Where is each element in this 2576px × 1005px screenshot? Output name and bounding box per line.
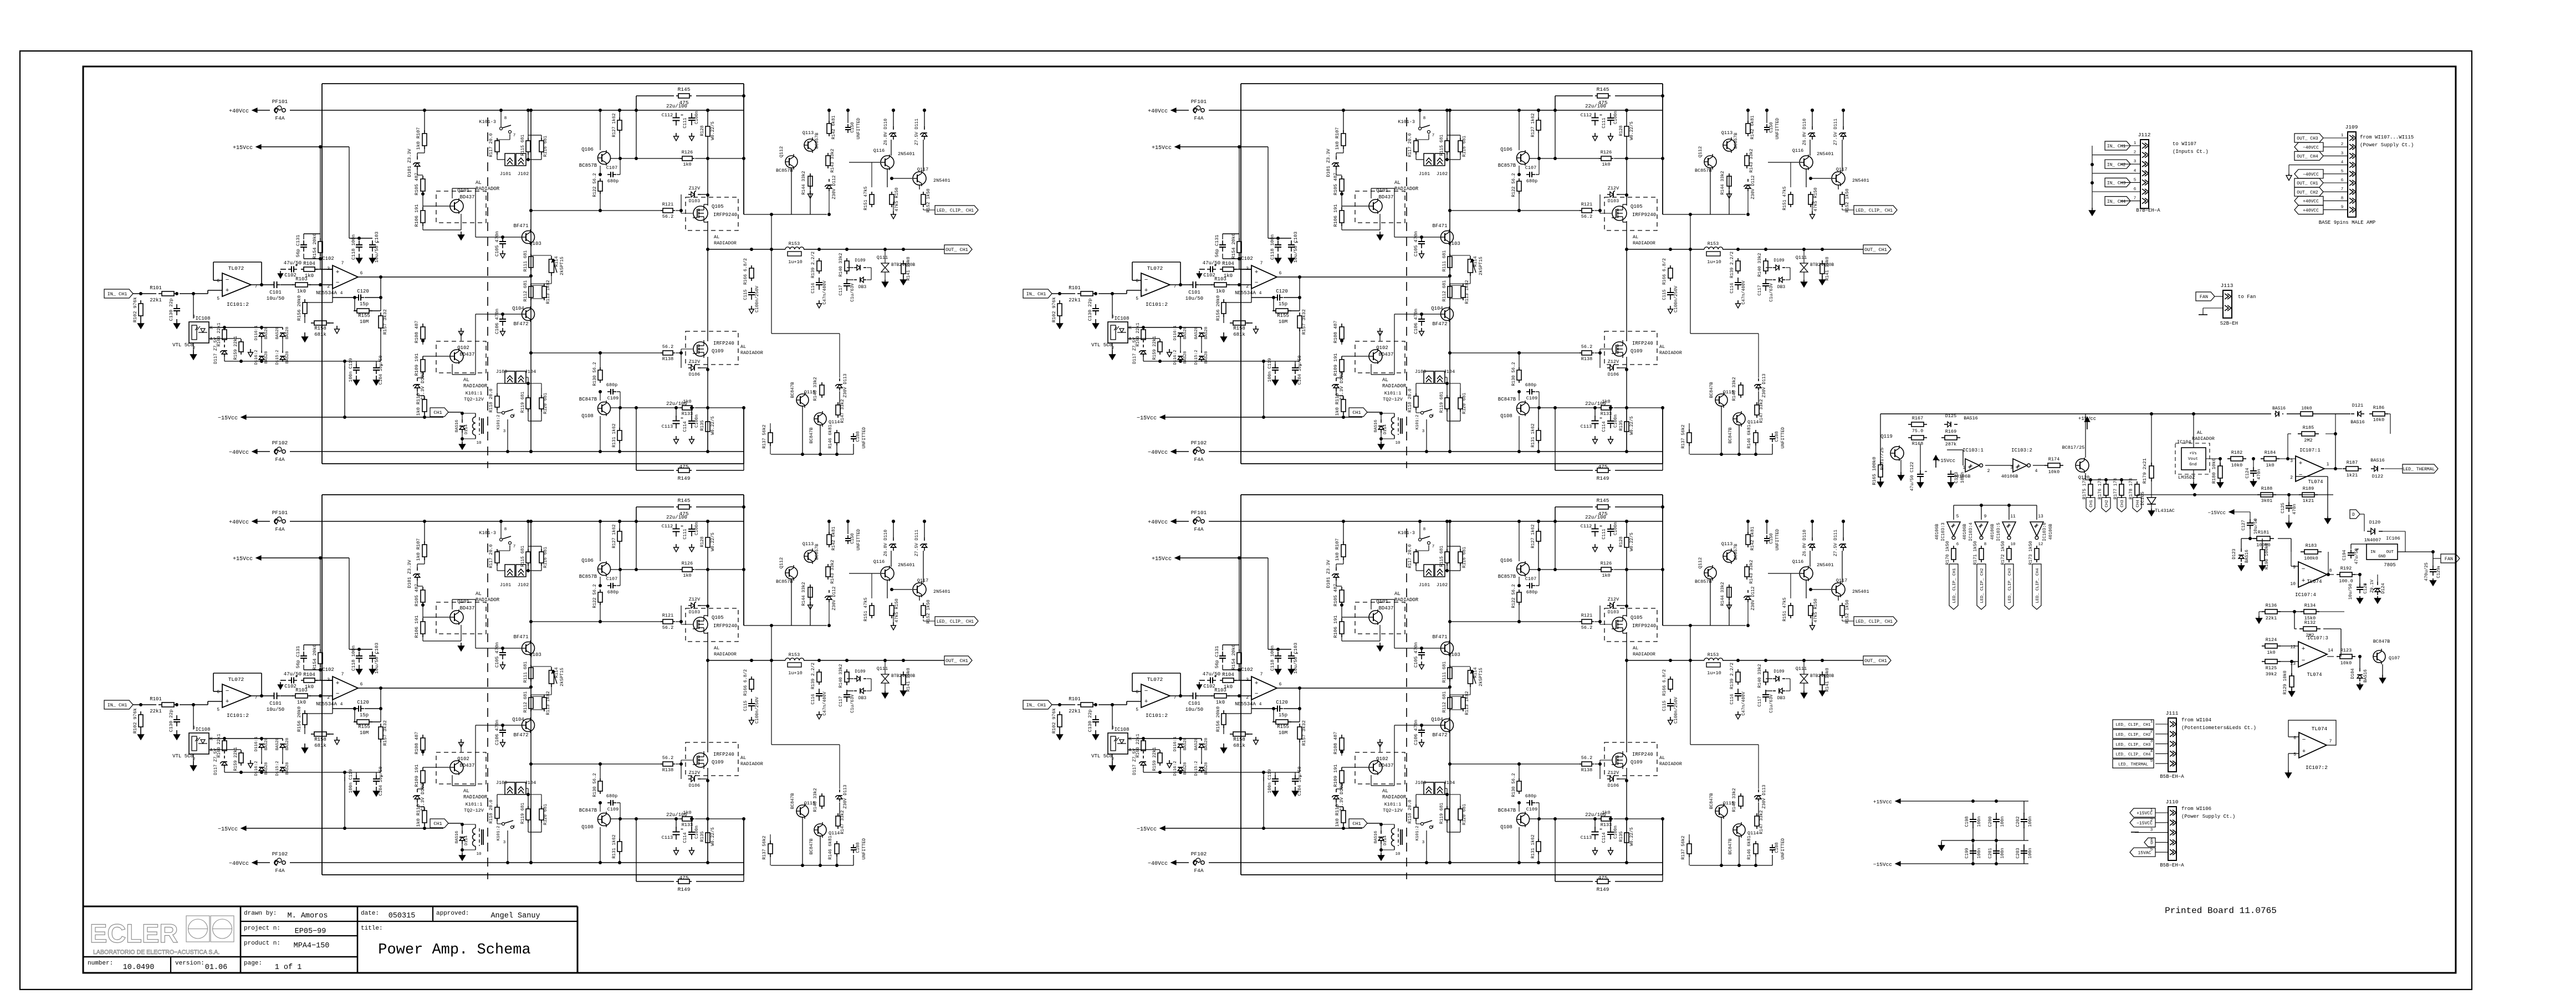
svg-text:2: 2 [2134,151,2137,155]
svg-text:page:: page: [244,960,262,967]
svg-text:1: 1 [1962,465,1965,470]
svg-text:13: 13 [2038,514,2043,519]
svg-text:14: 14 [2328,648,2333,653]
svg-text:10: 10 [2010,542,2016,547]
resistor R164 10k0 [2299,413,2301,414]
amplifier channel CH1 block [104,84,978,481]
svg-text:10k0: 10k0 [2340,660,2352,666]
svg-text:Q107: Q107 [2389,655,2400,661]
svg-text:J112: J112 [2138,132,2151,138]
svg-text:40106B: 40106B [1935,524,1940,540]
svg-text:IC107:1: IC107:1 [2299,448,2321,453]
wire J112 ground bus [2092,146,2093,208]
svg-text:IC103:6: IC103:6 [2042,522,2047,541]
capacitor C127 10u/50 [2250,519,2251,523]
svg-text:D122: D122 [2372,474,2383,479]
resistor R176 178 [2105,481,2107,484]
svg-text:R172 1k50: R172 1k50 [2001,541,2006,565]
ground [2203,307,2223,309]
net flag FAN [2196,292,2215,301]
svg-text:−: − [2299,472,2303,479]
svg-text:−15Vcc: −15Vcc [1873,862,1893,868]
svg-text:MPA4−150: MPA4−150 [294,942,330,950]
svg-text:(Inputs Ct.): (Inputs Ct.) [2173,149,2209,155]
label -15Vcc [2229,510,2234,514]
svg-text:100.0: 100.0 [2339,578,2353,584]
schmitt inverter IC103:3 40106B [1947,522,1960,536]
net flag LED_CLIP_CH2 [2113,730,2154,739]
capacitor C203 100n [2023,844,2025,851]
svg-text:D120: D120 [2369,520,2380,525]
svg-text:5: 5 [2150,759,2153,763]
svg-text:4: 4 [2035,469,2038,474]
label +15Vcc thermal [2087,422,2088,429]
svg-text:B5B−EH−A: B5B−EH−A [2160,863,2184,868]
svg-text:AL: AL [2197,430,2202,435]
svg-text:GND: GND [2378,555,2386,559]
svg-text:4: 4 [2134,169,2137,173]
svg-text:D: D [2352,512,2355,517]
svg-text:R129 10k0: R129 10k0 [2283,670,2288,694]
svg-text:5: 5 [1956,514,1959,519]
svg-text:C201: C201 [1988,848,1993,858]
svg-text:100n: 100n [2028,816,2033,827]
svg-text:LED_ THERMAL: LED_ THERMAL [2403,467,2435,472]
net flag LED_CLIP_CH4 [2113,749,2154,758]
svg-text:IC103:3: IC103:3 [1941,522,1946,541]
svg-text:R183: R183 [2306,543,2317,548]
svg-text:R134: R134 [2304,603,2316,608]
svg-text:100n: 100n [2000,848,2005,858]
resistor R167 75.0 [1908,424,1911,425]
svg-text:1N4007: 1N4007 [2364,537,2381,543]
svg-text:IC107:3: IC107:3 [2307,635,2328,641]
wire -15Vcc cap bank rail [1895,862,1900,866]
schmitt inverter IC103:5 40106B [2002,522,2016,536]
svg-text:LED_ CLIP_ CH3: LED_ CLIP_ CH3 [2115,743,2151,747]
net flag CH2 [2102,498,2110,512]
svg-text:OUT_ CH3: OUT_ CH3 [2297,136,2318,141]
svg-text:from WI106: from WI106 [2181,806,2211,812]
svg-text:Vout: Vout [2188,457,2198,462]
svg-text:IN_ CH3: IN_ CH3 [2107,181,2126,186]
svg-text:BAS16: BAS16 [2370,458,2385,463]
net flag 15VAC [2130,848,2155,857]
svg-text:R188: R188 [2261,486,2272,491]
svg-text:40106B: 40106B [2001,474,2018,479]
resistor R134 15k0 [2301,611,2304,612]
svg-text:7805: 7805 [2384,562,2396,568]
svg-text:C129: C129 [2436,567,2441,578]
net flag D [2144,838,2155,847]
schmitt inverter IC103:1 40106B [1965,459,1980,472]
svg-text:R180 10k0: R180 10k0 [2211,458,2217,484]
svg-text:1k0: 1k0 [2267,650,2275,655]
svg-text:R178 178: R178 178 [2129,478,2134,500]
svg-text:J111: J111 [2166,710,2179,716]
svg-text:8: 8 [2341,196,2344,201]
ground [1941,840,1942,842]
amplifier channel CH2 block [1023,84,1897,481]
svg-text:LED_ CLIP_ CH2: LED_ CLIP_ CH2 [1980,568,1985,603]
amplifier channel CH4 block [1023,495,1897,893]
resistor R132 2M2 [2299,628,2303,629]
svg-text:J110: J110 [2166,799,2179,805]
capacitor C194 47u/50 [2355,551,2356,552]
svg-text:S2B−EH: S2B−EH [2220,321,2238,326]
svg-text:D104: D104 [2350,668,2355,679]
svg-text:IC107:2: IC107:2 [2306,765,2328,771]
svg-text:M. Amoros: M. Amoros [288,912,328,920]
diode D104 BAS16 [2359,668,2360,671]
svg-text:+15VCC: +15VCC [2137,811,2153,816]
svg-text:R167: R167 [1912,416,1923,421]
svg-text:39k2: 39k2 [2266,671,2277,677]
op-amp IC107:1 TL074 [2296,456,2324,481]
svg-text:Gnd: Gnd [2189,463,2197,467]
capacitor C201 100n [1996,844,1997,851]
wire +15Vcc cap bank rail [1895,799,1900,803]
resistor R186 10k0 [2369,413,2373,414]
capacitor C128 10u/50 [2359,583,2360,587]
svg-text:FAN: FAN [2445,556,2453,562]
svg-text:from WI104: from WI104 [2181,717,2211,723]
voltage regulator IC106 7805 [2367,544,2398,560]
net flag CH3 [2117,498,2126,512]
svg-text:1k21: 1k21 [2347,473,2358,478]
svg-text:OUT_ CH4: OUT_ CH4 [2297,155,2318,160]
capacitor C122 47u/50 [1920,470,1921,474]
net flag LED_CLIP_CH1 [2113,720,2154,729]
svg-text:D123: D123 [2232,548,2237,559]
svg-text:Power Amp. Schema: Power Amp. Schema [378,942,530,958]
net flag FAN [2441,554,2460,563]
svg-text:−: − [2302,566,2306,573]
svg-text:product n:: product n: [244,940,280,947]
svg-text:287k: 287k [1945,442,1956,447]
svg-text:TL431AC: TL431AC [2155,508,2175,514]
net flag LED_CLIP_CH3 [2113,740,2154,748]
resistor R187 1k21 [2343,468,2346,469]
resistor R180 10k0 [2220,463,2221,466]
svg-text:100n: 100n [1977,816,1982,827]
svg-text:R187: R187 [2347,460,2358,465]
resistor R123 10k0 [2337,656,2340,657]
svg-text:LED_ CLIP_ CH2: LED_ CLIP_ CH2 [2115,733,2150,737]
svg-text:D125: D125 [1945,413,1956,419]
net flag −40VCC [2294,142,2323,151]
temperature sensor IC104 LM35DZ [2181,448,2206,470]
svg-text:6: 6 [2134,187,2137,192]
svg-text:−: − [2302,737,2306,744]
svg-text:BASE 9pins MALE AMP: BASE 9pins MALE AMP [2319,220,2376,225]
net flag D [2350,510,2360,519]
svg-text:drawn by:: drawn by: [244,910,277,917]
svg-text:1k21: 1k21 [2303,498,2314,504]
svg-text:6: 6 [2293,736,2296,741]
svg-text:IC103:1: IC103:1 [1962,448,1984,453]
svg-text:+: + [2302,578,2306,584]
capacitor C200 100n [1996,813,1997,819]
svg-text:470n: 470n [2292,504,2297,514]
svg-text:3: 3 [2290,459,2293,464]
svg-text:C198: C198 [1965,816,1970,827]
svg-text:R175 178: R175 178 [2082,478,2087,500]
svg-text:Q119: Q119 [1880,434,1893,439]
svg-text:C202: C202 [2016,816,2021,827]
svg-text:TL074: TL074 [2307,672,2322,678]
svg-text:R132: R132 [2304,620,2316,625]
svg-text:IC107:4: IC107:4 [2295,592,2316,598]
svg-text:R171 1k50: R171 1k50 [1973,541,1978,565]
zener D124 Z9.1V [2377,582,2378,585]
svg-text:C127: C127 [2241,520,2246,530]
svg-text:BAS16: BAS16 [2363,669,2368,683]
resistor R183 100k0 [2301,551,2304,552]
svg-text:title:: title: [361,925,383,932]
svg-text:9: 9 [2341,206,2344,210]
svg-text:R192: R192 [2340,566,2352,571]
svg-text:to Fan: to Fan [2238,294,2256,300]
svg-text:version:: version: [175,960,205,967]
capacitor C125 470n [2288,502,2289,506]
schmitt inverter IC103:4 40106B [1975,522,1988,536]
transistor Q107 BC847B [2373,650,2385,663]
svg-text:R179 2x21: R179 2x21 [2142,458,2148,484]
schmitt inverter IC103:6 40106B [2030,522,2043,536]
svg-text:2: 2 [1987,469,1990,474]
diode D125 BAS16 [1944,424,1948,425]
svg-text:15VAC: 15VAC [2138,850,2151,855]
svg-text:approved:: approved: [436,910,469,917]
svg-text:9: 9 [1984,514,1987,519]
net flag OUT_CH2 [2294,187,2323,196]
svg-text:1: 1 [2134,141,2137,146]
svg-text:R136: R136 [2266,603,2277,608]
net flag +15VCC [2130,808,2155,817]
wire inverter inputs [1954,505,2037,506]
svg-text:C128: C128 [2363,583,2368,593]
svg-text:47u/50: 47u/50 [2354,548,2359,564]
svg-text:470n: 470n [2257,469,2262,479]
resistor R190 100k0 [2262,547,2263,550]
resistor R175 178 [2090,481,2091,484]
svg-text:R176 178: R176 178 [2098,478,2103,500]
resistor R192 100.0 [2337,574,2340,575]
resistor R181 100k0 [2253,538,2257,539]
svg-text:D: D [2150,841,2153,846]
diode D120 1N4007 [2367,531,2371,532]
svg-text:3: 3 [2134,160,2137,164]
resistor R136 22k1 [2262,611,2265,612]
op-amp IC107:2 TL074 [2299,732,2327,758]
svg-text:7: 7 [2341,187,2344,192]
net flag CH4 [2133,498,2141,512]
svg-text:FAN: FAN [2200,294,2208,300]
resistor R124 1k0 [2262,645,2265,647]
svg-text:+40VCC: +40VCC [2303,208,2319,213]
svg-text:IC106: IC106 [2386,536,2400,541]
svg-text:BC847B: BC847B [2373,639,2390,644]
net flag LED_CLIP_CH3 vertical [2005,564,2013,609]
svg-text:LED_ CLIP_ CH1: LED_ CLIP_ CH1 [2115,723,2151,727]
resistor R170 1k50 [1953,546,1954,548]
capacitor C129 470u/25 [2432,566,2434,570]
svg-text:TL074: TL074 [2307,579,2322,584]
svg-text:100n: 100n [2028,848,2033,858]
svg-text:CH3: CH3 [2120,500,2125,507]
label +15Vcc [1935,460,1936,468]
svg-text:CH2: CH2 [2105,500,2109,507]
svg-text:10k0: 10k0 [2301,406,2312,411]
svg-text:OUT: OUT [2386,550,2394,555]
transistor Q120 BC817/25 [2076,459,2089,472]
svg-text:BC817/25: BC817/25 [2062,445,2085,450]
transistor Q119 BC817/25 [1890,447,1904,460]
svg-text:Angel Sanuy: Angel Sanuy [490,912,540,920]
resistor R174 10k0 [2045,465,2048,466]
svg-text:+: + [2299,460,2303,467]
svg-text:+15Vcc: +15Vcc [1873,799,1893,805]
svg-text:BAS16: BAS16 [1964,416,1978,421]
resistor R185 2M2 [2298,433,2302,434]
wire mid rail [1941,840,2028,841]
capacitor C199 100n [1972,844,1974,851]
svg-text:R169: R169 [1945,429,1956,434]
schmitt inverter IC103:2 40106B [2013,459,2027,472]
svg-text:40106B: 40106B [1962,524,1967,540]
svg-text:R170 1k50: R170 1k50 [1945,541,1950,565]
svg-text:8: 8 [1984,542,1987,547]
net flag LED_CLIP_CH1 vertical [1949,564,1958,609]
svg-text:project n:: project n: [244,925,280,932]
svg-text:75.0: 75.0 [1912,428,1923,434]
net flag OUT_CH4 [2294,151,2323,160]
net flag IN_CH2 [2105,160,2130,168]
svg-text:(Power Supply Ct.): (Power Supply Ct.) [2360,142,2414,148]
svg-text:B7B−EH−A: B7B−EH−A [2136,208,2160,213]
svg-text:IC103:5: IC103:5 [1996,522,2001,541]
svg-text:4: 4 [2341,161,2344,165]
svg-text:IN_ CH2: IN_ CH2 [2107,162,2126,167]
svg-text:R125: R125 [2266,665,2277,671]
net flag +40VCC [2294,196,2323,205]
svg-text:6: 6 [2341,178,2344,183]
svg-text:10k0: 10k0 [2231,463,2242,468]
svg-text:1k0: 1k0 [2266,463,2274,468]
svg-text:+Vs: +Vs [2189,452,2197,456]
svg-text:R168: R168 [1912,441,1923,447]
svg-text:Z9.1V: Z9.1V [2370,580,2375,593]
wire IC107:2 feedback [2288,720,2336,745]
svg-text:IN_ CH4: IN_ CH4 [2107,199,2126,204]
svg-text:TL074: TL074 [2308,479,2323,485]
svg-text:10u/50: 10u/50 [2348,583,2353,599]
resistor R182 10k0 [2227,458,2231,459]
net flag +40VCC [2294,206,2323,214]
svg-text:LED_ CLIP_ CH4: LED_ CLIP_ CH4 [2115,753,2151,757]
svg-text:1: 1 [2341,134,2344,138]
net flag −15VCC [2130,818,2155,827]
svg-text:10: 10 [2290,582,2296,587]
resistor R173 1k50 [2036,546,2037,548]
svg-text:+15Vcc: +15Vcc [2078,416,2096,422]
svg-text:−: − [2302,658,2306,664]
svg-text:1: 1 [2327,462,2329,467]
svg-text:C124: C124 [2245,468,2250,478]
svg-text:Printed Board 11.0765: Printed Board 11.0765 [2165,906,2277,916]
wire thermal mid [2137,494,2333,495]
resistor R129 10k0 [2291,673,2292,676]
svg-text:40106B: 40106B [1990,524,1995,540]
svg-text:3k01: 3k01 [2261,498,2272,504]
svg-text:B5B−EH−A: B5B−EH−A [2160,774,2184,780]
svg-text:100k0: 100k0 [2304,556,2318,561]
svg-text:J109: J109 [2345,124,2358,130]
net flag IN_CH1 [2105,141,2130,150]
resistor R177 178 [2121,481,2122,484]
op-amp IC107:4 TL074 [2298,562,2327,587]
resistor R125 39k2 [2262,661,2265,662]
svg-text:2: 2 [2290,475,2293,480]
svg-text:12: 12 [2038,542,2043,547]
svg-text:3: 3 [2010,465,2013,470]
svg-text:LED_ THERMAL: LED_ THERMAL [2118,762,2149,767]
svg-text:BAS16: BAS16 [2350,419,2365,425]
svg-text:+: + [2302,748,2306,755]
svg-text:100n: 100n [2000,816,2005,827]
resistor R189 1k21 [2299,494,2302,495]
svg-text:01.06: 01.06 [205,963,228,972]
svg-text:EP05−99: EP05−99 [295,927,326,936]
svg-text:RADIADOR: RADIADOR [2192,436,2215,442]
svg-text:D124: D124 [2381,583,2386,593]
diode D121 BAS16 [2351,413,2354,414]
svg-text:LM35DZ: LM35DZ [2178,475,2195,480]
net flag IN_CH3 [2105,178,2130,187]
svg-text:3: 3 [2341,151,2344,156]
net flag LED_CLIP_CH2 vertical [1977,564,1986,609]
svg-text:100n: 100n [1977,848,1982,858]
svg-text:2: 2 [2341,142,2344,147]
svg-text:C199: C199 [1965,848,1970,858]
resistor R178 178 [2137,481,2138,484]
svg-text:40106B: 40106B [1954,474,1971,479]
svg-text:10k0: 10k0 [2048,469,2059,475]
resistor R169 287k [1941,437,1945,438]
svg-text:−15VCC: −15VCC [2137,821,2153,826]
svg-text:LED_ CLIP_ CH3: LED_ CLIP_ CH3 [2008,568,2012,603]
svg-text:ECLER: ECLER [90,919,178,948]
svg-text:7: 7 [2134,197,2137,201]
net flag CH1 [2086,498,2095,512]
resistor R172 1k50 [2008,546,2010,548]
svg-text:date:: date: [361,910,379,917]
wire thermal top rail [1880,413,2271,414]
svg-text:7: 7 [2329,739,2332,744]
svg-text:BAS16: BAS16 [2245,550,2250,563]
svg-text:IN_ CH1: IN_ CH1 [2107,144,2126,149]
svg-text:6: 6 [1956,542,1959,547]
svg-text:R181: R181 [2258,530,2269,535]
svg-text:LABORATORIO DE ELECTRO−ACUSTIC: LABORATORIO DE ELECTRO−ACUSTICA S.A. [93,949,219,956]
svg-text:IC104: IC104 [2177,439,2191,445]
svg-text:IC105: IC105 [2140,491,2145,506]
net flag LED_THERMAL [2113,759,2154,768]
amplifier channel CH3 block [104,495,978,893]
title block table [83,906,577,907]
svg-text:to WI107: to WI107 [2173,141,2196,147]
